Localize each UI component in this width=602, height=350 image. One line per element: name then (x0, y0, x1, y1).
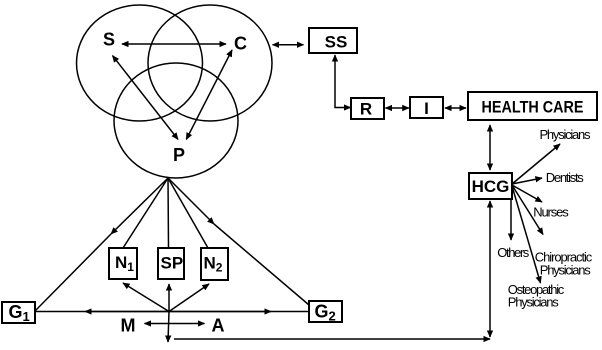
wire S-P double arrow (113, 56, 179, 140)
svg-text:S: S (103, 30, 115, 50)
wire HCG to Physicians (512, 144, 560, 184)
svg-text:Others: Others (497, 245, 530, 260)
wire S-C double arrow (122, 43, 226, 45)
box N1 (109, 248, 137, 279)
box G2 (309, 301, 342, 322)
box HEALTH CARE (468, 92, 597, 120)
svg-text:C: C (234, 34, 247, 54)
box SP (158, 248, 184, 279)
svg-text:P: P (173, 145, 185, 165)
wire center to N1 bottom (123, 283, 169, 312)
wire C-SS double arrow (273, 44, 304, 46)
wire center to SP bottom (168, 284, 170, 312)
svg-text:Physicians: Physicians (540, 263, 592, 278)
svg-text:Nurses: Nurses (533, 205, 569, 220)
wire baseline arrow toward G2 (169, 311, 271, 313)
wire HCG to Chiropractic Physicians (512, 185, 543, 235)
svg-text:R: R (360, 100, 372, 119)
svg-text:HCG: HCG (472, 177, 510, 196)
box R (351, 98, 384, 119)
wire feedback bottom horizontal (174, 338, 490, 340)
box G1 (2, 302, 35, 323)
svg-text:SS: SS (325, 33, 348, 52)
svg-text:Physicians: Physicians (540, 127, 592, 142)
circle C (148, 5, 272, 121)
wire apex to G2 continuation (214, 224, 309, 305)
wire R-I double arrow (386, 107, 409, 109)
box HCG (469, 173, 512, 199)
circle P (114, 63, 238, 178)
wire apex to N2 top (168, 178, 208, 248)
box N2 (201, 248, 228, 280)
wire baseline arrow toward G1 (85, 311, 169, 313)
svg-text:I: I (424, 99, 429, 118)
wire M-A double arrow (145, 323, 205, 325)
wire center tail down (168, 312, 169, 343)
wire I-HEALTH CARE double arrow (445, 107, 466, 109)
wire HCG to Others (510, 200, 512, 240)
wire HEALTH CARE-HCG double arrow (489, 125, 491, 170)
wire apex to G1 continuation (35, 234, 111, 311)
wire HCG to Dentists (512, 178, 542, 184)
svg-text:A: A (212, 316, 225, 336)
svg-text:Physicians: Physicians (508, 295, 560, 310)
wire center to N2 bottom (169, 284, 209, 312)
svg-text:Dentists: Dentists (546, 170, 585, 185)
wire HCG to Nurses (512, 185, 542, 202)
box SS (309, 28, 357, 53)
wire apex to G2 with mid arrowhead (168, 178, 214, 224)
box I (410, 97, 443, 118)
svg-text:HEALTH CARE: HEALTH CARE (482, 98, 584, 117)
wire SS-R elbow double arrow (335, 55, 351, 108)
wire apex to G1 with mid arrowhead (111, 178, 168, 234)
svg-text:SP: SP (161, 254, 184, 273)
circle S (77, 5, 203, 121)
wire C-P double arrow (186, 50, 232, 139)
wire feedback vertical HCG (489, 201, 491, 337)
svg-text:M: M (121, 316, 136, 336)
wire apex to SP top (167, 178, 170, 248)
wire HCG to Osteopathic Physicians (512, 186, 541, 283)
wire apex to N1 top (123, 178, 168, 248)
wire G1-G2 baseline (35, 311, 309, 313)
